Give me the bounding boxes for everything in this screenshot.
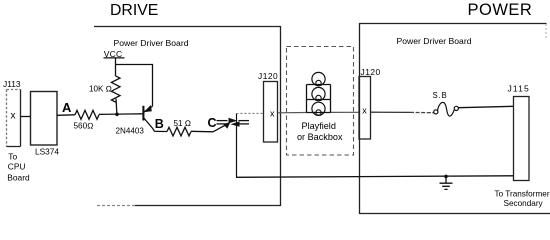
wire collector to 51 ohm <box>155 130 168 132</box>
svg-text:LS374: LS374 <box>35 147 59 157</box>
svg-text:DRIVE: DRIVE <box>110 2 158 19</box>
junction at ground <box>444 175 448 179</box>
svg-text:S.B: S.B <box>433 91 448 100</box>
power board outline <box>360 24 550 214</box>
wire triac to J120 <box>237 112 264 114</box>
connector J120 left <box>264 82 278 143</box>
transistor Q1 2N4403 emitter <box>144 106 152 112</box>
VCC rail to emitter <box>116 65 153 107</box>
svg-text:C: C <box>208 116 217 130</box>
svg-text:J115: J115 <box>508 84 530 94</box>
wire lamps to J120 right <box>331 111 360 113</box>
fuse F1 <box>434 110 438 114</box>
svg-text:x: x <box>11 111 16 122</box>
triac terminal bars left <box>217 120 228 122</box>
wire J120 to fuse <box>371 111 411 113</box>
lamp L3 <box>312 102 325 115</box>
lamp L2 <box>312 87 325 100</box>
gate diagonal with arrow <box>213 125 227 132</box>
power box right edge stub <box>545 24 547 40</box>
wire return bottom <box>236 176 514 178</box>
resistor 10K <box>111 76 120 102</box>
svg-text:x: x <box>270 108 275 118</box>
resistor 560 ohm <box>75 110 99 119</box>
wire fuse to J115 <box>458 106 513 107</box>
connector J113 <box>7 90 21 147</box>
svg-text:CPU: CPU <box>8 161 26 171</box>
svg-text:To Transformer: To Transformer <box>495 189 550 198</box>
svg-text:J120: J120 <box>361 67 381 77</box>
svg-text:J120: J120 <box>258 71 278 81</box>
svg-text:B: B <box>155 117 164 131</box>
triac terminal bars right <box>239 120 250 122</box>
svg-text:51 Ω: 51 Ω <box>174 119 191 128</box>
wire triac vertical <box>236 114 238 178</box>
wire VCC down <box>115 58 117 76</box>
wire LS374 to resistor <box>57 114 75 117</box>
triac body <box>229 118 238 123</box>
ground <box>440 176 453 189</box>
drive board outline <box>94 27 281 206</box>
svg-text:or Backbox: or Backbox <box>297 132 343 142</box>
transistor base bar <box>142 106 144 121</box>
transistor collector <box>143 118 154 132</box>
connector J120 right <box>359 77 371 140</box>
wire J120 to lamps <box>278 112 307 114</box>
junction node <box>115 113 119 117</box>
svg-text:x: x <box>362 106 367 116</box>
lamp ladder rails <box>307 85 331 113</box>
svg-text:Secondary: Secondary <box>504 199 544 208</box>
svg-text:560Ω: 560Ω <box>74 122 94 131</box>
svg-text:Playfield: Playfield <box>302 121 336 131</box>
svg-text:Power Driver Board: Power Driver Board <box>114 38 189 48</box>
svg-text:2N4403: 2N4403 <box>116 127 145 136</box>
svg-text:To: To <box>8 152 17 162</box>
lamp L1 <box>312 72 325 85</box>
svg-text:POWER: POWER <box>468 1 533 19</box>
svg-text:J113: J113 <box>3 79 21 89</box>
IC LS374 <box>31 92 58 146</box>
wire resistor to base <box>99 113 143 116</box>
resistor 51 ohm <box>167 127 191 136</box>
svg-text:Board: Board <box>7 172 30 182</box>
lamp rungs <box>307 84 331 86</box>
svg-text:A: A <box>62 100 72 115</box>
wire 51 ohm to gate <box>191 130 213 133</box>
playfield dashed box <box>287 47 354 156</box>
connector J115 <box>514 97 530 181</box>
wire J113 to LS374 <box>21 116 31 118</box>
svg-text:Power Driver Board: Power Driver Board <box>397 36 472 46</box>
svg-text:10K Ω: 10K Ω <box>89 85 112 94</box>
